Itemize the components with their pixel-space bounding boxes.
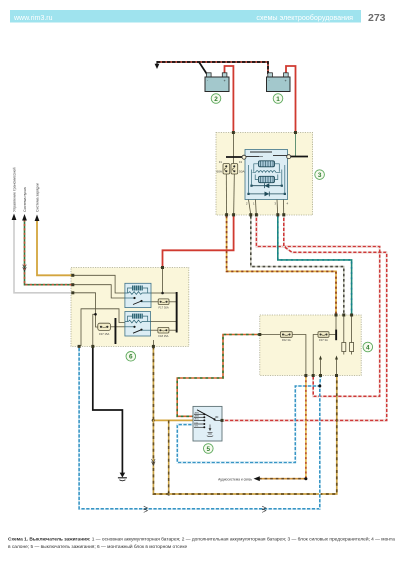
connector pin arrow blue pad [319, 356, 322, 376]
wire: battery 1 positive to block 3 (red) [286, 66, 296, 133]
callout 2: auxiliary battery [211, 94, 221, 104]
black bus right [291, 156, 308, 158]
wire: olive branch down beside switch [168, 420, 170, 494]
connector chevron on olive wire [152, 459, 156, 465]
caption [8, 536, 395, 551]
inductor humps [253, 171, 281, 173]
black bus left [226, 156, 242, 158]
fuse F17 30A [158, 299, 169, 305]
wire: blue/white striped big loop, block6 bottom to block4 pad [79, 346, 320, 508]
node on olive wire at yellow branch [152, 419, 155, 422]
svg-text:-: - [207, 79, 208, 83]
red feed line to bus bar [163, 268, 177, 293]
fuse F07b 3A [318, 332, 329, 338]
svg-text:F02 3A: F02 3A [282, 338, 291, 342]
block6 edge pads [71, 266, 164, 348]
olive exit line [152, 340, 154, 346]
blue exit line to relay B coil [81, 309, 125, 346]
connector housing 1 [342, 343, 346, 352]
svg-text:Система пуска: Система пуска [23, 187, 27, 212]
junction dot at olive loop [167, 493, 170, 496]
coil2 loop [255, 175, 278, 180]
svg-text:F18 15A: F18 15A [158, 334, 168, 338]
svg-text:Схема 1. Выключатель зажигания: Схема 1. Выключатель зажигания: 1 — осно… [8, 536, 395, 543]
bus bar 2 block6 [115, 318, 117, 344]
fuse F02 3A [280, 332, 292, 338]
connector pin arrow olive pad [335, 356, 338, 376]
terminal rings [242, 155, 246, 159]
main contact switch [246, 156, 259, 158]
ignition switch block 5 [193, 406, 222, 441]
F07b to bus bar [329, 334, 335, 336]
node line battery2 feed [232, 133, 234, 164]
block4 edge pads [258, 314, 353, 378]
block 4 internals [260, 315, 352, 376]
connector chevron on green wire [23, 265, 27, 271]
relay B output to fuse F18 [151, 329, 158, 331]
wire: blue/white striped, switch term3 to junction [177, 386, 320, 463]
coil 2 hatched [259, 176, 275, 182]
wire: left yellow (charging system), up-arrow end [35, 215, 73, 276]
ground symbol bottom [118, 473, 127, 481]
ground arrow top left [155, 61, 160, 69]
wire: left green/red striped (starting system), up-arrow end [22, 214, 73, 285]
node line battery1 feed [295, 133, 297, 157]
block 3 fuse box frame [216, 133, 313, 216]
block5 right terminal pad [221, 419, 224, 422]
svg-text:www.rim3.ru: www.rim3.ru [13, 15, 53, 22]
svg-text:50A: 50A [239, 170, 245, 174]
svg-text:AM2: AM2 [195, 415, 200, 418]
fuse F18 15A [158, 327, 169, 333]
block 6 engine-bay junction box frame [71, 268, 189, 347]
svg-text:в салоне; 5 — выключатель зажи: в салоне; 5 — выключатель зажигания; 6 —… [8, 543, 187, 550]
connector chevrons on blue loop [144, 506, 148, 512]
callout 5: ignition switch [204, 444, 214, 454]
callout 3: power fuse box [315, 170, 325, 180]
connector housing 2 [350, 343, 354, 352]
yellow feed line to relay A coil [73, 275, 125, 293]
relay A coil stub to bus [151, 292, 163, 294]
svg-text:2: 2 [214, 96, 218, 103]
fuse F07 15A [98, 323, 111, 330]
relay A block6 [125, 283, 151, 307]
wire: block3 pin4 to ignition switch term 30, red/white striped [222, 216, 387, 420]
battery 1 (main) [267, 73, 291, 92]
wire: orange striped stub to audio system with arrow [254, 476, 306, 481]
key lamp symbol [207, 425, 213, 437]
line from left node through F02 down to pad [260, 334, 280, 336]
wire: black ground from block 6 [93, 346, 123, 473]
svg-text:Управление трансмиссией: Управление трансмиссией [13, 168, 17, 213]
black branch join [93, 314, 96, 346]
fuse F07 to relay B contact [111, 326, 125, 328]
svg-text:F17 30A: F17 30A [159, 305, 169, 309]
svg-text:F07 15A: F07 15A [99, 332, 109, 336]
wire: block3 pin2 out, white/black striped to block4 top [251, 216, 344, 315]
relay A output to fuse F17 [151, 301, 158, 303]
block3 entry/exit pads [225, 131, 297, 216]
header band [10, 10, 386, 24]
wire: block3 fuse2 out, red to block 6 top [163, 216, 234, 268]
wire: green/orange striped, block4 left to ignition switch term 1 [177, 335, 260, 417]
svg-text:F07 3A: F07 3A [319, 338, 328, 342]
white feed line to fuse F07 [73, 293, 98, 327]
diode row 1 (pointing left) [250, 183, 283, 188]
wire: block3 pin1 to block4 pad, red/white striped via right side [256, 216, 379, 396]
bar feed from top [335, 315, 337, 330]
svg-text:273: 273 [368, 12, 386, 24]
bus bar block4 [335, 330, 337, 341]
callout 6: engine bay junction box [126, 352, 136, 362]
rotary blade [197, 410, 215, 420]
svg-text:1: 1 [276, 96, 280, 103]
relay B block6 [125, 312, 151, 337]
fuse F main 50A [231, 164, 238, 175]
svg-text:4: 4 [366, 344, 370, 351]
wire: block3 pin3 teal to block4 top [278, 216, 352, 315]
wire: yellow/red striped from block4 F02 down to audio junction [305, 376, 307, 479]
relay B coil stub to bus [151, 321, 177, 323]
diode row 2 (pointing right) [247, 192, 286, 197]
wire: left white (transmission control), up-arrow end [12, 214, 73, 293]
block 6 internals [73, 268, 177, 346]
inner rails [251, 170, 253, 186]
svg-text:Система зарядки: Система зарядки [36, 183, 40, 212]
callout 4: cabin junction box [363, 342, 373, 352]
wire: olive loop block6 bottom to block4 bottom pad [153, 346, 336, 494]
svg-text:AM1: AM1 [195, 412, 200, 415]
block 3 internals [223, 133, 308, 214]
coil1 loop [254, 164, 279, 172]
wire: battery 2 positive to block 3 (red) [225, 66, 234, 133]
coil 1 hatched [259, 161, 275, 167]
white wire into connector housing 1 [343, 315, 345, 343]
svg-text:Аудиосистема и связь: Аудиосистема и связь [218, 477, 252, 481]
junction dot blue network [318, 385, 321, 388]
wire: block3 fuse1 out, yellow/red striped to block4 top and bar [227, 216, 336, 315]
svg-text:6: 6 [129, 354, 133, 361]
terminal micro labels [195, 412, 200, 428]
wire: yellow feed to ignition switch term 2 [153, 419, 193, 421]
bus bar block6 [176, 292, 178, 333]
teal wire into connector housing 2 [351, 315, 353, 343]
svg-text:30: 30 [215, 415, 219, 419]
callout 1: main battery [273, 94, 283, 104]
svg-text:5: 5 [207, 446, 211, 453]
green feed line to relay A contact [73, 285, 125, 298]
relay pins to pads [249, 200, 251, 214]
svg-text:ACC: ACC [195, 418, 200, 421]
svg-text:3: 3 [318, 172, 322, 179]
svg-text:схемы электрооборудования: схемы электрооборудования [256, 13, 353, 22]
wire: battery negative bus (black/red dashed) with branch to battery 2 [157, 62, 268, 75]
fuse F main 60A [223, 164, 230, 175]
svg-text:-: - [269, 79, 270, 83]
relay unit box block3 [245, 150, 288, 200]
svg-text:60A: 60A [216, 170, 222, 174]
line from pad up to F07b [313, 335, 318, 376]
block 4 cabin junction box frame [260, 315, 361, 376]
battery 2 (auxiliary) [205, 73, 229, 92]
